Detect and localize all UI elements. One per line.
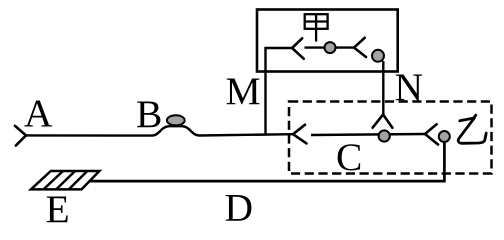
- wire AB (from fork A over hump at B to fork end in dashed box): [26, 126, 293, 135]
- terminal dot in 甲 (left, on wire segment): [325, 42, 336, 53]
- box 甲 (device jia, solid border): [257, 10, 398, 72]
- fork terminal A (left end of wire AB): [15, 126, 26, 146]
- fork terminal at right end of wire C (grips dot of 乙): [425, 124, 438, 144]
- fork terminal at end of wire N (opens downward over wire C dot): [373, 115, 393, 128]
- wire M (from inside box 甲 down to junction on wire AB): [266, 48, 293, 135]
- terminal dot 乙: [439, 131, 450, 142]
- svg-text:B: B: [136, 92, 162, 136]
- wire from terminal 乙 down and left to block E (wire D): [90, 143, 444, 181]
- label 乙: [458, 115, 486, 143]
- hatched block E (parallelogram with hatching): [31, 171, 100, 189]
- label 甲: [305, 14, 328, 41]
- svg-text:A: A: [24, 91, 53, 135]
- terminal dot B (ellipse above the hump): [167, 115, 185, 125]
- wire segment inside 甲 between the two forks: [305, 46, 355, 48]
- svg-text:D: D: [225, 186, 254, 227]
- fork terminal at right end of wire AB (inside dashed box): [293, 125, 307, 144]
- svg-text:E: E: [46, 187, 70, 227]
- terminal dot in 甲 (right, connected to wire N): [372, 50, 384, 62]
- svg-text:M: M: [226, 69, 261, 113]
- fork terminal at end of wire M (inside 甲): [292, 38, 304, 58]
- fork terminal in 甲 (right end of wire segment): [354, 38, 366, 57]
- wire C (inside dashed box): [311, 134, 425, 135]
- svg-text:C: C: [336, 135, 362, 179]
- terminal dot on wire C (under fork N): [379, 130, 390, 141]
- dashed box 乙 region: [289, 102, 492, 174]
- wire N (from dot in 甲 down into dashed box): [382, 61, 384, 115]
